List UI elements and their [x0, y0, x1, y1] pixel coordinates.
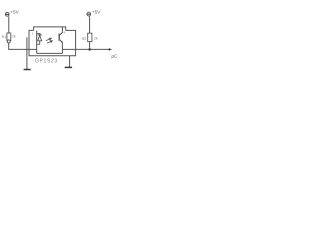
wire left supply to R1 [8, 16, 10, 33]
wire input horizontal to LED anode [8, 48, 37, 50]
ground left [24, 37, 31, 69]
ground right [65, 56, 72, 68]
resistor R2 [88, 33, 92, 41]
svg-text:2k: 2k [94, 37, 98, 41]
power terminal +5V left [5, 12, 9, 16]
junction dot [88, 48, 91, 51]
svg-text:GP1S23: GP1S23 [35, 59, 58, 65]
node terminal circle below R1 [7, 40, 10, 43]
light arrow 1 [46, 38, 51, 40]
phototransistor Q1 inside package [59, 27, 62, 53]
optocoupler U1 package outline [29, 27, 76, 56]
svg-text:µC: µC [111, 53, 118, 58]
emitter arrowhead [61, 41, 63, 43]
wire right supply to R2 [89, 16, 91, 33]
LED D1 inside package [37, 31, 42, 54]
svg-text:2k: 2k [12, 35, 16, 39]
svg-text:+5V: +5V [92, 10, 101, 15]
svg-text:R1: R1 [2, 35, 7, 39]
wire circle down [8, 43, 10, 50]
power terminal +5V right [87, 12, 91, 16]
output arrowhead [109, 48, 112, 51]
resistor R1 [7, 33, 11, 40]
svg-text:+5V: +5V [10, 10, 19, 15]
svg-text:1: 1 [32, 32, 34, 36]
light arrow 2 [47, 41, 52, 43]
svg-text:4: 4 [64, 30, 66, 34]
wire R2 down to output node [89, 42, 91, 50]
svg-text:R2: R2 [82, 37, 87, 41]
output wire to uC [62, 48, 109, 50]
